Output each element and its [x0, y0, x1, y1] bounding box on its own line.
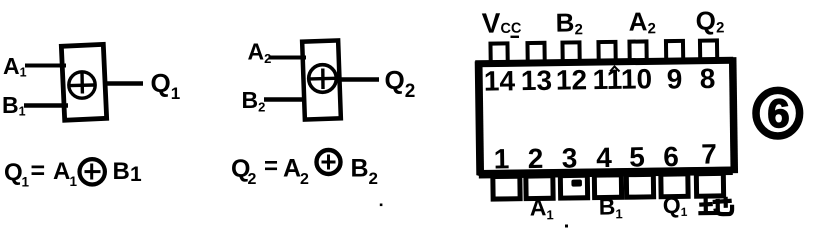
svg-text:A2: A2	[248, 39, 272, 67]
svg-text:4: 4	[596, 142, 612, 173]
pin 8 lead	[700, 40, 717, 61]
label ground (Chinese character di) at pin 7	[698, 197, 732, 215]
pin 6 lead	[661, 174, 688, 197]
IC body bottom thick edge	[479, 171, 733, 175]
pin 7 lead	[696, 173, 723, 196]
equation Q2 = A2 xor B2	[231, 150, 378, 188]
pin 10 lead	[629, 41, 646, 62]
IC body right thick edge	[733, 57, 735, 173]
svg-text:3: 3	[562, 142, 578, 173]
pin 9 lead	[666, 41, 683, 62]
svg-text:2: 2	[248, 171, 257, 188]
XOR operator symbol (circle-plus)	[317, 150, 341, 174]
svg-text:A2: A2	[628, 6, 656, 37]
svg-text:10: 10	[621, 63, 653, 94]
equation Q1 = A1 xor B1	[4, 157, 142, 190]
svg-text:6: 6	[767, 92, 789, 136]
XOR gate G2 body	[302, 40, 341, 119]
svg-text:Q2: Q2	[385, 65, 416, 102]
XOR operator symbol (circle-plus)	[80, 159, 105, 184]
svg-text:6: 6	[663, 141, 679, 172]
IC body outline	[477, 60, 733, 173]
svg-text:9: 9	[666, 63, 682, 94]
svg-text:11: 11	[592, 64, 622, 95]
svg-text:13: 13	[521, 65, 553, 96]
pin 1 lead	[493, 176, 520, 199]
svg-text:2: 2	[528, 143, 544, 174]
pin 2 lead	[526, 176, 553, 199]
svg-text:Q1: Q1	[151, 68, 181, 103]
stray scan speck 2	[380, 204, 383, 207]
svg-text:B2: B2	[242, 87, 266, 115]
pin 3 lead	[560, 175, 587, 198]
svg-text:12: 12	[556, 64, 588, 95]
svg-text:1: 1	[494, 143, 510, 174]
svg-text:VCC: VCC	[481, 7, 522, 39]
svg-text:=: =	[31, 157, 46, 185]
wire A1 to gate G1	[25, 64, 66, 68]
svg-text:1: 1	[22, 175, 30, 190]
stray caret mark between pin numbers 11 and 10	[610, 67, 620, 72]
svg-text:Q: Q	[4, 159, 23, 186]
IC package DIP-14	[474, 4, 735, 223]
svg-text:1: 1	[130, 163, 142, 186]
XOR gate G1 body	[61, 44, 106, 120]
scan blob inside pin 3 lead	[571, 180, 582, 187]
svg-text:B: B	[351, 155, 369, 183]
svg-text:=: =	[264, 153, 278, 180]
pin 12 lead	[562, 42, 579, 63]
stray scan speck 1	[565, 225, 568, 228]
stray mark under Vcc label	[511, 36, 520, 38]
svg-text:8: 8	[699, 63, 715, 94]
svg-text:Q2: Q2	[695, 5, 724, 36]
wire B1 to gate G1	[24, 103, 68, 108]
wire Q1 from gate G1	[103, 81, 143, 86]
svg-text:B1: B1	[2, 92, 26, 119]
wire A2 to gate G2	[269, 56, 307, 60]
XOR symbol of G2 (circle-plus)	[309, 65, 337, 93]
svg-text:A1: A1	[3, 53, 27, 80]
svg-text:2: 2	[369, 169, 378, 188]
svg-text:B: B	[113, 158, 130, 185]
svg-text:A: A	[283, 155, 301, 183]
IC body top thick edge	[475, 60, 733, 64]
svg-text:B2: B2	[555, 7, 583, 38]
XOR symbol of G1 (circle-plus)	[69, 72, 95, 99]
wire Q2 from gate G2	[339, 77, 379, 82]
pin 4 lead	[594, 175, 621, 198]
svg-text:14: 14	[484, 65, 516, 96]
pin 11 lead	[598, 42, 615, 63]
figure number 6 (circled)	[756, 90, 800, 136]
svg-text:A: A	[53, 158, 70, 185]
svg-text:1: 1	[70, 174, 78, 189]
svg-text:7: 7	[701, 138, 717, 169]
IC body left thick edge	[479, 61, 481, 176]
pin 13 lead	[527, 43, 544, 64]
svg-text:2: 2	[300, 171, 309, 188]
pin 14 lead	[490, 43, 507, 64]
wire B2 to gate G2	[264, 97, 306, 102]
svg-text:5: 5	[629, 141, 645, 172]
pin 5 lead	[626, 174, 653, 197]
